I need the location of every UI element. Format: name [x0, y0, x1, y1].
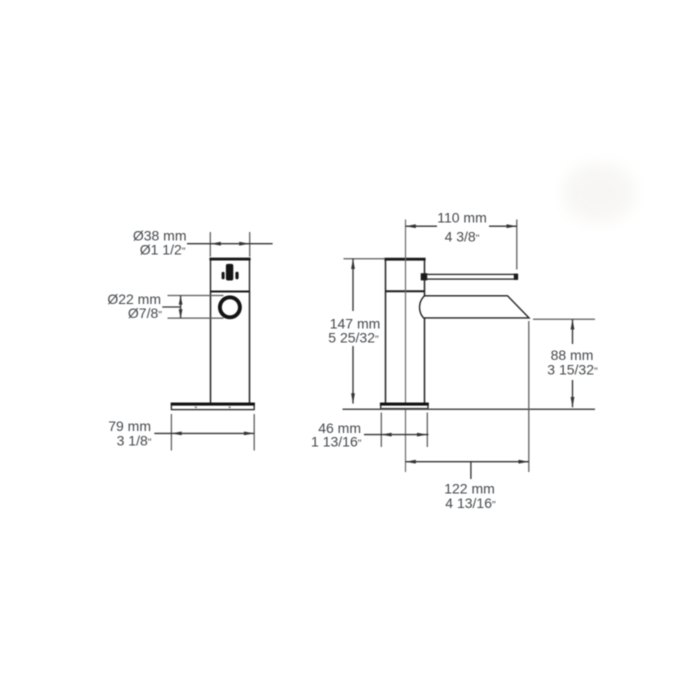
dim 79: extension lines [171, 414, 254, 451]
dim Ø22: dimension line [180, 296, 182, 319]
side view: column [384, 259, 425, 403]
svg-text:Ø1 1/2": Ø1 1/2" [140, 242, 186, 258]
dim 110: dimension line [406, 225, 517, 227]
dim Ø38: arrows [211, 242, 250, 246]
side view: center extension line [405, 220, 407, 473]
svg-text:Ø7/8": Ø7/8" [128, 305, 162, 321]
dim Ø22: label [107, 291, 162, 321]
side view: spout [420, 296, 529, 318]
dim 122: label [444, 481, 496, 512]
svg-text:110 mm: 110 mm [437, 209, 487, 225]
dim 46: extension lines [381, 413, 427, 448]
svg-text:4 3/8": 4 3/8" [445, 229, 480, 245]
svg-text:3 15/32": 3 15/32" [547, 362, 598, 378]
dim 79: dimension line [154, 432, 254, 434]
svg-text:88 mm: 88 mm [551, 347, 594, 363]
svg-text:1 13/16": 1 13/16" [311, 434, 362, 450]
front view: logo icon (three bars) [222, 264, 239, 281]
dim Ø22: leader stub [162, 306, 180, 308]
dim Ø22: arrows [179, 296, 183, 319]
dim Ø22: extension lines [168, 296, 224, 319]
dim 46: arrows [381, 433, 427, 437]
dim 46: dimension line [364, 434, 429, 436]
watermark blob [563, 163, 635, 223]
dim 88: label [547, 347, 598, 378]
dim 147: dimension line [352, 259, 354, 404]
dim 122: leader stub [470, 462, 472, 479]
svg-text:3 1/8": 3 1/8" [117, 432, 152, 448]
dim 147: extension line top [344, 258, 386, 260]
dim 147: arrows [351, 259, 355, 404]
dim 46: label [311, 420, 362, 450]
dim 110: extension line right [516, 220, 518, 270]
dim Ø38: extension lines [210, 232, 249, 257]
front view: sensor circle [220, 297, 240, 317]
dim 122: dimension line [406, 461, 529, 463]
dim 88: dimension line [572, 319, 574, 407]
dim 79: arrows [171, 432, 254, 436]
dim 79: label [108, 418, 152, 448]
side view: lever handle [421, 273, 518, 280]
dim 110: label [437, 209, 487, 244]
front view: body column [211, 292, 250, 404]
front view: top cap box [209, 259, 250, 292]
dim 110: arrows [406, 224, 517, 228]
svg-text:122 mm: 122 mm [444, 481, 495, 497]
dim 122: arrows [406, 460, 529, 464]
dim Ø38: dimension line [187, 243, 273, 245]
dim 88: extension line top [533, 318, 595, 320]
dim 122: extension line right [528, 321, 530, 472]
svg-text:4 13/16": 4 13/16" [445, 495, 496, 511]
dim 88: arrows [571, 319, 575, 407]
floor line [343, 408, 596, 410]
side view: base plate [380, 403, 429, 408]
svg-text:5 25/32": 5 25/32" [328, 330, 379, 346]
dim 147: label [328, 315, 380, 345]
front view: base plate [171, 403, 255, 409]
dim Ø38: label [133, 227, 187, 257]
